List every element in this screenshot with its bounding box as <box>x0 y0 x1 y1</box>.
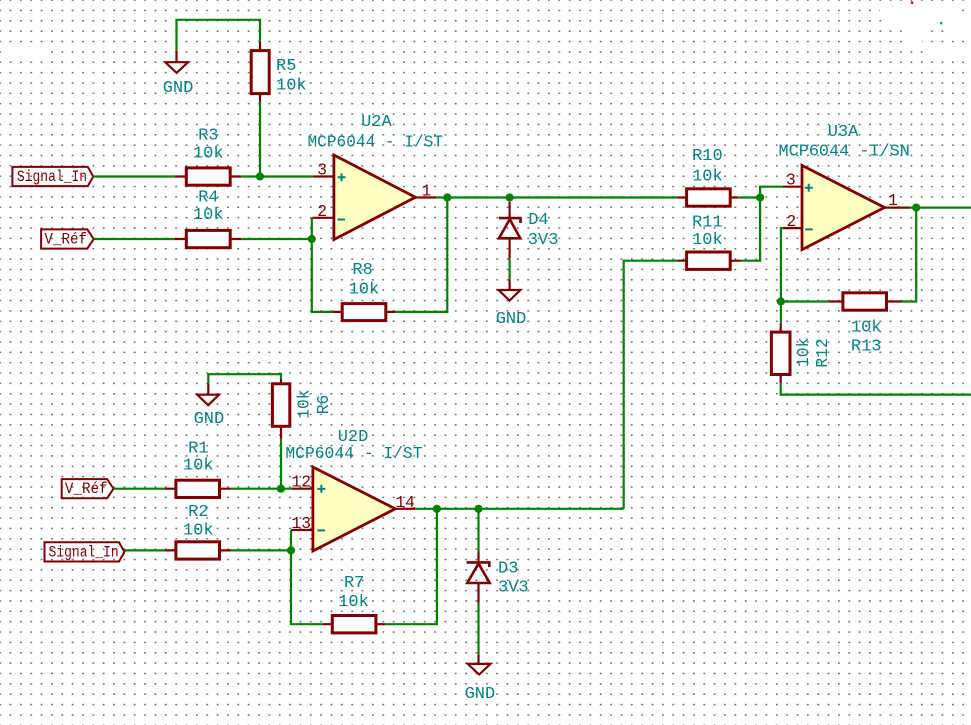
resistor R7 <box>322 616 385 633</box>
svg-text:3: 3 <box>786 170 796 189</box>
svg-text:3V3: 3V3 <box>528 231 559 250</box>
svg-text:10k: 10k <box>692 231 723 250</box>
wire R11 to U2D output (long) <box>624 261 678 509</box>
svg-text:D3: D3 <box>498 559 518 578</box>
wire node down to R11 <box>741 198 761 261</box>
svg-text:Signal_In: Signal_In <box>49 543 119 561</box>
wire R3 to U2A pin 3 <box>241 175 313 177</box>
ground GND3 <box>499 279 521 300</box>
resistor R3 <box>175 168 241 185</box>
svg-text:R5: R5 <box>276 57 296 76</box>
junction node R3/R5 <box>256 172 264 180</box>
svg-text:MCP6044 - I/ST: MCP6044 - I/ST <box>285 445 422 464</box>
svg-text:MCP6044 - I/ST: MCP6044 - I/ST <box>308 134 444 153</box>
wire GND2 to R6 top <box>208 374 281 383</box>
wire R12 bottom to edge <box>781 384 971 395</box>
svg-text:10k: 10k <box>183 521 214 540</box>
svg-text:R3: R3 <box>198 127 218 146</box>
svg-text:V_Réf: V_Réf <box>44 230 87 248</box>
svg-text:R2: R2 <box>188 503 208 522</box>
resistor R5 <box>251 42 269 102</box>
wire Signal_In to R2 <box>125 549 165 551</box>
svg-text:10k: 10k <box>851 319 882 338</box>
svg-text:3: 3 <box>317 160 327 179</box>
junction D3 tap <box>474 505 482 513</box>
svg-text:1: 1 <box>888 191 898 210</box>
wire U3A pin2 down to R12 <box>781 228 783 323</box>
diode D3 (zener 3V3) <box>467 552 490 603</box>
junction R2/pin13 node <box>287 546 295 554</box>
svg-text:MCP6044 -I/SN: MCP6044 -I/SN <box>779 143 910 162</box>
svg-text:D4: D4 <box>528 211 548 230</box>
wire R1 to U2D pin 12 <box>231 488 292 490</box>
wire D3 to GND4 <box>477 603 479 655</box>
svg-text:Signal_In: Signal_In <box>17 168 87 186</box>
svg-text:10k: 10k <box>276 77 307 96</box>
wire node to U2A pin 2 and down to R8 <box>312 218 333 312</box>
ground GND1 <box>165 51 188 73</box>
wire R13 to U3A pin 2 node <box>781 300 829 302</box>
junction D4 tap <box>506 193 514 201</box>
op-amp U2A <box>312 155 436 240</box>
svg-text:GND: GND <box>163 79 194 98</box>
junction U2A output <box>443 193 451 201</box>
svg-text:2: 2 <box>787 212 797 231</box>
junction R10/R11 node <box>756 193 764 201</box>
svg-text:R11: R11 <box>692 214 723 233</box>
resistor R1 <box>165 480 231 497</box>
resistor R11 <box>677 252 740 269</box>
diode D4 (zener 3V3) <box>499 202 521 259</box>
svg-text:13: 13 <box>291 514 311 533</box>
wire output down to R13 <box>902 208 917 302</box>
svg-text:R7: R7 <box>344 574 364 593</box>
svg-text:10k: 10k <box>692 167 723 186</box>
wire R4 to node <box>241 238 312 240</box>
wire node up to pin 13 and down to R7 <box>291 530 322 624</box>
svg-text:R8: R8 <box>352 261 372 280</box>
wire R5 bottom to node <box>259 102 261 176</box>
wire R8 to output node <box>395 198 447 312</box>
svg-text:10k: 10k <box>794 338 813 367</box>
junction U2D output/R7 <box>433 505 441 513</box>
junction node R4/pin2 <box>308 235 316 243</box>
svg-text:GND: GND <box>496 310 527 329</box>
svg-text:GND: GND <box>465 685 496 704</box>
svg-text:10k: 10k <box>349 280 380 299</box>
svg-text:1: 1 <box>422 181 432 200</box>
wire D4 to GND3 <box>509 258 511 279</box>
global label V_Réf (bottom) <box>62 479 114 498</box>
op-amp U2D <box>291 467 416 551</box>
wire R7 to output node <box>386 509 437 624</box>
resistor R4 <box>175 230 241 247</box>
svg-text:10k: 10k <box>295 389 314 418</box>
svg-text:10k: 10k <box>193 206 224 225</box>
wire U2A output <box>437 196 678 198</box>
global label Signal_In (bottom) <box>45 542 125 561</box>
svg-text:R4: R4 <box>198 188 218 207</box>
junction U3A output <box>912 204 920 212</box>
wire U2D output <box>416 508 624 510</box>
wire R2 to U2D pin 13 node <box>231 549 292 551</box>
svg-text:R10: R10 <box>692 147 723 166</box>
svg-text:14: 14 <box>395 493 415 512</box>
svg-text:10k: 10k <box>338 593 369 612</box>
svg-text:10k: 10k <box>183 457 214 476</box>
svg-text:2: 2 <box>317 202 327 221</box>
op-amp U3A <box>783 165 910 249</box>
svg-text:R13: R13 <box>851 337 882 356</box>
wire V_Réf to R1 <box>114 488 165 490</box>
resistor R12 <box>771 323 790 383</box>
wire GND1 to R5 top <box>177 20 261 51</box>
wire Signal_In to R3 <box>93 175 175 177</box>
resistor R6 <box>272 380 289 439</box>
svg-text:3V3: 3V3 <box>498 578 529 597</box>
svg-text:12: 12 <box>291 473 311 492</box>
resistor R2 <box>165 542 231 559</box>
junction R13/R12 node <box>777 297 785 305</box>
resistor R10 <box>677 189 738 206</box>
wire R10 to node <box>738 196 760 198</box>
svg-text:V_Réf: V_Réf <box>65 480 108 498</box>
resistor R8 <box>332 304 395 321</box>
wire node up to U3A pin 3 <box>760 187 783 198</box>
junction R1/R6 node <box>277 485 285 493</box>
wire U3A output to edge <box>910 207 971 209</box>
svg-text:R6: R6 <box>314 395 333 415</box>
resistor R13 <box>829 293 902 310</box>
global label V_Réf (top) <box>41 229 94 248</box>
global label Signal_In (top) <box>12 167 93 186</box>
svg-text:R12: R12 <box>813 338 832 367</box>
svg-text:10k: 10k <box>193 145 224 164</box>
wire V_Réf to R4 <box>94 238 175 240</box>
svg-text:U3A: U3A <box>828 123 859 142</box>
ground GND2 <box>197 383 219 405</box>
svg-text:U2A: U2A <box>361 113 392 132</box>
wire D3 tap down <box>477 509 479 552</box>
ground GND4 <box>468 655 491 675</box>
svg-text:GND: GND <box>194 410 225 429</box>
wire R6 bottom to pin12 node <box>280 439 282 489</box>
